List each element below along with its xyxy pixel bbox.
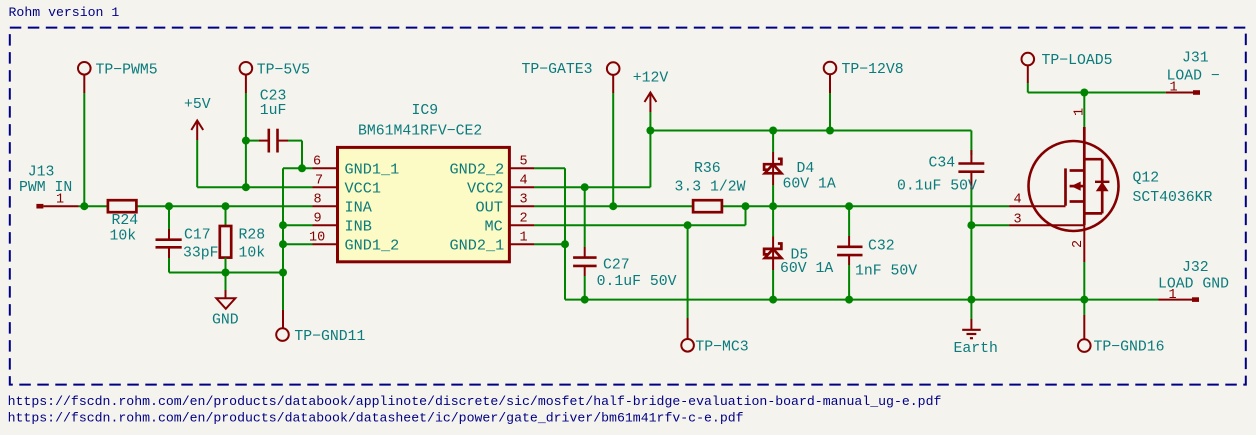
junction C17 top bbox=[165, 202, 173, 210]
svg-text:9: 9 bbox=[314, 212, 322, 227]
svg-text:SCT4036KR: SCT4036KR bbox=[1133, 190, 1213, 206]
svg-text:1: 1 bbox=[520, 231, 528, 246]
svg-text:C34: C34 bbox=[929, 156, 956, 172]
svg-text:OUT: OUT bbox=[476, 199, 503, 217]
svg-text:Q12: Q12 bbox=[1133, 171, 1160, 187]
svg-text:33pF: 33pF bbox=[183, 246, 219, 262]
wire: main PWM/OUT net y=206 bbox=[79, 205, 1010, 207]
svg-text:D4: D4 bbox=[797, 161, 815, 177]
svg-text:TP−GATE3: TP−GATE3 bbox=[522, 62, 593, 78]
junction GND2_1/riser bbox=[561, 240, 569, 248]
svg-text:TP−GND16: TP−GND16 bbox=[1094, 340, 1165, 356]
testpoint TP-PWM5 bbox=[78, 62, 158, 93]
connector J31 LOAD - pin 1 bbox=[1166, 51, 1220, 96]
svg-text:2: 2 bbox=[520, 212, 528, 227]
wire TP-5V5 down to VCC1 bbox=[245, 93, 247, 187]
capacitor C23 bbox=[246, 89, 288, 153]
wire pin9 INB stub net bbox=[283, 224, 313, 226]
junction TP-PWM5/PWM bbox=[80, 202, 88, 210]
junction C32 bottom / rail bbox=[845, 296, 853, 304]
connector J32 LOAD GND pin 1 bbox=[1158, 260, 1229, 303]
capacitor C34 bbox=[897, 150, 984, 195]
svg-text:1nF 50V: 1nF 50V bbox=[855, 264, 917, 280]
wire: GND2 rail y=299.6 bbox=[565, 299, 1158, 301]
ground Earth symbol bbox=[954, 300, 998, 357]
svg-text:7: 7 bbox=[315, 174, 323, 189]
pin 7 VCC1 bbox=[313, 174, 381, 198]
svg-text:GND1_2: GND1_2 bbox=[345, 237, 400, 255]
capacitor C32 bbox=[837, 206, 917, 299]
svg-text:R28: R28 bbox=[239, 228, 266, 244]
power +12V bbox=[633, 71, 669, 113]
svg-text:GND2_2: GND2_2 bbox=[450, 161, 505, 179]
junction GND1_2/riser bbox=[279, 240, 287, 248]
svg-text:C32: C32 bbox=[868, 239, 895, 255]
pin 9 INB bbox=[313, 212, 372, 236]
svg-text:J31: J31 bbox=[1182, 51, 1209, 67]
svg-text:GND: GND bbox=[212, 313, 239, 329]
svg-text:4: 4 bbox=[520, 174, 528, 189]
svg-text:R24: R24 bbox=[112, 213, 139, 229]
svg-text:INA: INA bbox=[345, 199, 373, 217]
power +5V bbox=[184, 97, 211, 140]
svg-text:0.1uF 50V: 0.1uF 50V bbox=[897, 179, 977, 195]
junction D4 top / rail bbox=[769, 127, 777, 135]
svg-text:8: 8 bbox=[314, 193, 322, 208]
svg-text:4: 4 bbox=[1014, 193, 1022, 208]
junction MC riser / OUT bbox=[742, 202, 750, 210]
wire: +12V rail y=130.5 bbox=[650, 131, 971, 151]
svg-text:1: 1 bbox=[1073, 108, 1088, 116]
svg-text:VCC1: VCC1 bbox=[345, 180, 381, 198]
junction C27 bottom / rail bbox=[581, 296, 589, 304]
svg-text:VCC2: VCC2 bbox=[467, 180, 503, 198]
wire TP-12V8 to rail bbox=[829, 93, 831, 131]
svg-text:PWM IN: PWM IN bbox=[19, 180, 72, 196]
svg-text:J13: J13 bbox=[28, 165, 55, 181]
svg-text:GND1_1: GND1_1 bbox=[345, 161, 400, 179]
svg-text:1: 1 bbox=[56, 193, 64, 208]
wire Q12 source to rail bbox=[1083, 262, 1085, 300]
wire: GND1 net under C17/R28 bbox=[169, 272, 283, 274]
junction C23/pin6 bbox=[298, 164, 306, 172]
pin 1 GND2_1 bbox=[450, 231, 535, 255]
svg-text:TP−GND11: TP−GND11 bbox=[294, 329, 365, 345]
junction TP-GATE3/OUT bbox=[609, 202, 617, 210]
sheet title bbox=[9, 5, 120, 20]
wire TP-GATE3 to OUT net bbox=[612, 93, 614, 206]
junction R28 bottom bbox=[222, 269, 230, 277]
svg-text:TP−LOAD5: TP−LOAD5 bbox=[1042, 53, 1113, 69]
testpoint TP-12V8 bbox=[824, 62, 904, 93]
resistor R24 bbox=[108, 200, 138, 244]
junction pin3 net / riser bbox=[967, 221, 975, 229]
wire GND2_1 to riser bbox=[534, 243, 565, 245]
svg-text:R36: R36 bbox=[694, 161, 721, 177]
wire VCC2 net bbox=[534, 131, 650, 188]
wire +5V to VCC1 net bbox=[197, 140, 312, 187]
svg-text:MC: MC bbox=[485, 218, 503, 236]
testpoint TP-GATE3 bbox=[522, 62, 620, 93]
svg-text:3: 3 bbox=[520, 193, 528, 208]
resistor R28 bbox=[220, 206, 265, 272]
svg-text:https://fscdn.rohm.com/en/prod: https://fscdn.rohm.com/en/products/datab… bbox=[8, 410, 744, 425]
junction R28 top bbox=[222, 202, 230, 210]
wire MC net bbox=[534, 206, 745, 225]
wire GND1 vertical riser x=283 bbox=[282, 168, 284, 272]
junction TP-5V5/VCC1 bbox=[242, 183, 250, 191]
junction D5 bottom / rail bbox=[769, 296, 777, 304]
wire TP-PWM5 to PWM net bbox=[83, 93, 85, 206]
zener diode D4 bbox=[764, 131, 836, 207]
pin 4 VCC2 bbox=[467, 174, 534, 198]
wire pin6 GND1_1 net bbox=[283, 167, 313, 169]
wire C23 right to pin6 net bbox=[288, 141, 302, 169]
svg-text:60V 1A: 60V 1A bbox=[783, 177, 836, 193]
wire C34 bottom riser to rail bbox=[970, 189, 972, 300]
svg-text:Rohm version 1: Rohm version 1 bbox=[9, 5, 120, 20]
connector J13 PWM IN pin 1 bbox=[19, 165, 79, 209]
junction C27/VCC2 bbox=[581, 183, 589, 191]
svg-text:+12V: +12V bbox=[633, 71, 669, 87]
svg-text:60V 1A: 60V 1A bbox=[780, 261, 833, 277]
op-amp/IC U IC9 BM61M41RFV-CE2 body bbox=[338, 103, 510, 262]
pin 5 GND2_2 bbox=[450, 155, 535, 179]
junction GND net corner / TP-GND11 bbox=[279, 269, 287, 277]
junction drain riser bbox=[1080, 89, 1088, 97]
svg-text:+5V: +5V bbox=[184, 97, 211, 113]
wire GND2_2 to GND riser bbox=[534, 168, 565, 299]
zener diode D5 bbox=[764, 206, 833, 299]
svg-text:C17: C17 bbox=[184, 228, 211, 244]
junction TP-MC3 / MC net bbox=[684, 221, 692, 229]
capacitor C27 bbox=[573, 187, 677, 299]
wire +12V stem bbox=[649, 112, 651, 131]
svg-text:1: 1 bbox=[1170, 81, 1178, 96]
svg-text:J32: J32 bbox=[1182, 260, 1209, 276]
svg-text:TP−5V5: TP−5V5 bbox=[257, 63, 310, 79]
junction +12V/rail bbox=[646, 127, 654, 135]
svg-text:5: 5 bbox=[520, 155, 528, 170]
testpoint TP-MC3 bbox=[681, 225, 748, 355]
svg-text:6: 6 bbox=[313, 155, 321, 170]
svg-text:3.3 1/2W: 3.3 1/2W bbox=[675, 180, 746, 196]
svg-text:10k: 10k bbox=[110, 229, 137, 245]
svg-text:1uF: 1uF bbox=[260, 103, 287, 119]
pin 3 OUT bbox=[476, 193, 535, 217]
svg-text:Earth: Earth bbox=[954, 341, 998, 357]
testpoint TP-LOAD5 bbox=[1022, 53, 1113, 83]
url line 1 bbox=[8, 394, 942, 409]
junction source / rail / TP-GND16 bbox=[1080, 296, 1088, 304]
svg-text:TP−MC3: TP−MC3 bbox=[695, 340, 748, 356]
svg-text:10: 10 bbox=[309, 231, 325, 246]
wire Q12 pin3 kelvin source net bbox=[971, 224, 1009, 226]
pin 2 MC bbox=[485, 212, 535, 236]
svg-text:TP−PWM5: TP−PWM5 bbox=[96, 63, 158, 79]
svg-text:C27: C27 bbox=[603, 258, 630, 274]
svg-text:BM61M41RFV−CE2: BM61M41RFV−CE2 bbox=[358, 124, 482, 140]
ground GND symbol bbox=[212, 273, 239, 329]
capacitor C17 bbox=[156, 206, 219, 272]
svg-text:2: 2 bbox=[1071, 240, 1086, 248]
junction INB/riser bbox=[279, 221, 287, 229]
junction TP-5V5/C23 bbox=[242, 137, 250, 145]
transistor Q12 SCT4036KR bbox=[1009, 108, 1212, 262]
junction riser / rail / Earth bbox=[967, 296, 975, 304]
svg-text:GND2_1: GND2_1 bbox=[450, 237, 505, 255]
testpoint TP-GND11 bbox=[276, 273, 365, 346]
svg-text:10k: 10k bbox=[239, 246, 266, 262]
pin 6 GND1_1 bbox=[313, 155, 400, 179]
svg-text:1: 1 bbox=[1169, 288, 1177, 303]
junction TP-12V8/rail bbox=[826, 127, 834, 135]
junction D4/D5/OUT bbox=[769, 202, 777, 210]
resistor R36 bbox=[675, 161, 746, 212]
testpoint TP-GND16 bbox=[1078, 300, 1165, 356]
svg-text:TP−12V8: TP−12V8 bbox=[842, 62, 904, 78]
svg-text:https://fscdn.rohm.com/en/prod: https://fscdn.rohm.com/en/products/datab… bbox=[8, 394, 942, 409]
svg-text:3: 3 bbox=[1014, 213, 1022, 228]
svg-text:INB: INB bbox=[345, 218, 372, 236]
testpoint TP-5V5 bbox=[240, 62, 310, 93]
svg-text:0.1uF 50V: 0.1uF 50V bbox=[597, 274, 677, 290]
pin 10 GND1_2 bbox=[309, 231, 399, 255]
svg-text:IC9: IC9 bbox=[412, 103, 439, 119]
wire pin10 GND1_2 stub net bbox=[283, 243, 313, 245]
wire TP-LOAD5 / J31 / drain net bbox=[1028, 83, 1166, 127]
junction C32 top / OUT bbox=[845, 202, 853, 210]
pin 8 INA bbox=[313, 193, 373, 217]
url line 2 bbox=[8, 410, 744, 425]
